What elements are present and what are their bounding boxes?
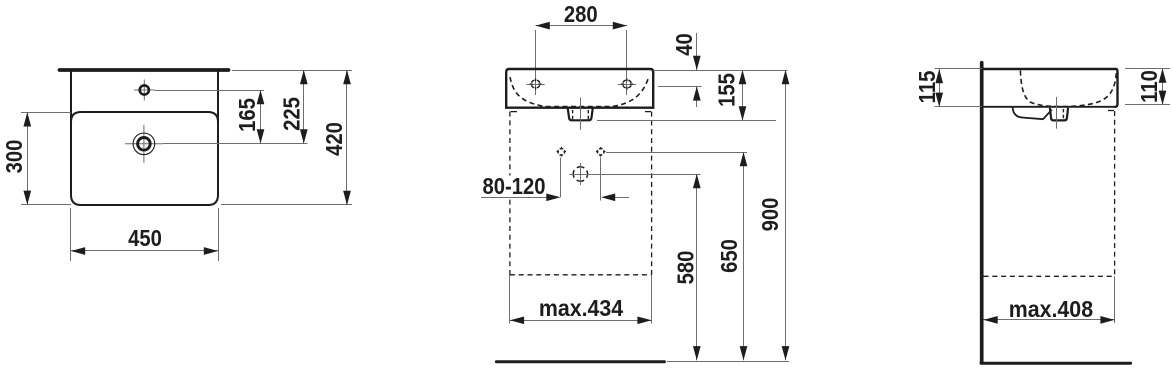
dim 225 line (303, 70, 305, 144)
dim 155 line (742, 70, 744, 121)
left tap hole (front, dashed) (526, 78, 544, 89)
basin outer outline (plan) (71, 70, 218, 205)
tap hole crosshair (134, 80, 155, 101)
ext line basin top to right (653, 70, 787, 72)
svg-text:155: 155 (713, 73, 740, 107)
svg-text:650: 650 (716, 239, 743, 273)
left mounting hole (557, 147, 567, 157)
ext line: basin bottom to left (21, 204, 71, 206)
dim 450 line (71, 250, 218, 252)
svg-text:110: 110 (1136, 70, 1163, 103)
svg-text:450: 450 (128, 225, 162, 252)
ext line below dashed limit (1114, 276, 1116, 323)
dashed clearance limit (side) (984, 111, 1115, 276)
dim 650 line (743, 152, 745, 360)
tap hole circle (140, 85, 149, 94)
lines from mounting holes down (560, 158, 562, 198)
bowl hidden profile (side, dashed) (1020, 71, 1116, 107)
ext line hole centers to right (658, 86, 702, 88)
drain pipe hidden lines (front) (572, 110, 574, 119)
right tap hole (front, dashed) (618, 78, 636, 89)
dim 165 line (260, 90, 262, 144)
ext lines: tap hole to right (155, 90, 264, 92)
svg-text:420: 420 (321, 122, 348, 156)
ext lines below dashed box (509, 275, 511, 324)
ext line from mounting holes to right (606, 152, 747, 154)
svg-text:40: 40 (671, 33, 698, 56)
dim 580 line (696, 174, 698, 360)
basin body (front) (506, 69, 653, 108)
basin inner bowl (plan) (71, 112, 218, 123)
ext line: wall top to right (232, 70, 352, 72)
ext lines: basin bottom corners down (70, 208, 72, 261)
ext line: drain center to right (163, 143, 308, 145)
dim 115 line (939, 69, 941, 107)
drain fitting (front) (568, 108, 593, 120)
drain outer circle (133, 133, 155, 155)
ext line from siphon to right (591, 174, 700, 176)
svg-text:580: 580 (672, 251, 699, 285)
dim 280 line (536, 25, 627, 27)
drain pipe hidden line (side) (1062, 109, 1064, 119)
basin top edge (side) (982, 68, 1116, 70)
dim max.434 line (510, 320, 652, 322)
drain fitting (side) (1050, 108, 1068, 121)
svg-text:300: 300 (1, 140, 28, 174)
ext line: bowl top to left (21, 112, 71, 114)
dim 420 line (346, 70, 348, 205)
overflow channel (side) (1013, 108, 1052, 120)
dashed box top corner dashes (511, 111, 518, 113)
floor line (side) (981, 362, 1131, 365)
svg-text:165: 165 (234, 98, 261, 132)
dim 110 line (1162, 69, 1164, 105)
dashed corner dash (side) (1108, 110, 1114, 112)
wall edge thick line (plan) (60, 68, 229, 72)
svg-text:max.408: max.408 (1009, 296, 1093, 322)
dim 80-120 lines and arrows (481, 197, 547, 199)
ext lines from 280 down to holes (535, 30, 537, 95)
drain inner circle (138, 138, 151, 151)
basin bottom edge (side) (982, 106, 1115, 108)
svg-text:280: 280 (564, 1, 598, 28)
ext lines 110 (right of basin) (1125, 68, 1170, 70)
dim 300 line (27, 112, 29, 205)
dim 80-120 text (480, 176, 548, 197)
dim 900 line (785, 70, 787, 360)
svg-text:80-120: 80-120 (482, 173, 545, 200)
bowl hidden profile (front, dashed) (510, 77, 649, 107)
floor line (front) (496, 360, 664, 363)
right mounting hole (596, 147, 606, 157)
svg-text:max.434: max.434 (539, 295, 624, 321)
drain crosshair (125, 125, 163, 163)
drain centerline (front) (580, 98, 582, 130)
drain centerline (side) (1056, 97, 1058, 129)
ext line: basin bottom to right (221, 204, 352, 206)
svg-text:900: 900 (757, 198, 784, 232)
basin front edge (side) (1115, 69, 1118, 107)
svg-text:225: 225 (278, 97, 305, 131)
siphon hidden circle (569, 163, 591, 185)
svg-text:115: 115 (914, 71, 941, 104)
ext line drain fitting bottom to right (597, 120, 776, 122)
wall line (side) (980, 63, 984, 363)
dashed clearance box below basin (510, 112, 652, 275)
dim 40 arrows (696, 33, 698, 70)
floor ext line to right (667, 361, 789, 363)
ext lines 115 (left of wall) (935, 68, 982, 70)
dim max.408 line (984, 319, 1115, 321)
